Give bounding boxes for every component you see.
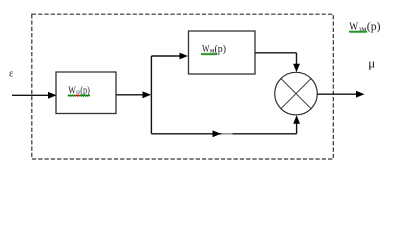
svg-text:ε: ε (9, 68, 14, 79)
svg-text:μ: μ (368, 56, 375, 71)
svg-text:(p): (p) (367, 21, 381, 33)
